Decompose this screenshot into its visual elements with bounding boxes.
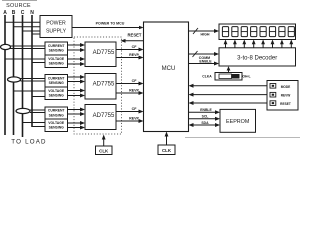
wire U2 CF to MCU	[116, 79, 144, 86]
pushbutton MODE	[270, 84, 290, 89]
svg-text:SOURCE: SOURCE	[6, 3, 31, 9]
svg-text:CF: CF	[132, 107, 138, 111]
pushbutton RESET	[270, 101, 291, 106]
svg-text:MODE: MODE	[281, 85, 291, 89]
current sensing 3 (phase C)	[45, 107, 68, 119]
svg-text:AD7755: AD7755	[93, 50, 115, 56]
wire U3 REVP to MCU	[116, 116, 144, 123]
oscillator CLK1 (ADC clock)	[96, 146, 113, 155]
svg-text:OH-L: OH-L	[242, 75, 250, 79]
svg-text:POWER: POWER	[46, 21, 66, 27]
op-amp U1 AD7755 #1	[85, 42, 116, 67]
wire voltage sensing 1 out a to U1	[68, 57, 86, 61]
voltage sensing 3 (phase C)	[45, 119, 68, 132]
wire voltage sensing 1 out b to U1	[68, 62, 86, 66]
svg-text:SENSING: SENSING	[49, 62, 65, 66]
wire neutral N vertical	[31, 15, 33, 127]
wire power supply to MCU	[72, 22, 144, 30]
svg-text:VOLTAGE: VOLTAGE	[48, 57, 65, 61]
svg-text:SUPPLY: SUPPLY	[46, 29, 67, 35]
display digit 7	[279, 27, 285, 37]
svg-text:REVW: REVW	[281, 94, 291, 98]
wire CT3 secondary a to current sensing 3	[30, 109, 45, 111]
svg-text:CF: CF	[132, 79, 138, 83]
svg-text:AD7755: AD7755	[93, 82, 115, 88]
svg-text:VOLTAGE: VOLTAGE	[48, 121, 65, 125]
wire CLK2 to MCU	[165, 132, 169, 146]
wire MCU COMM bus to decoder	[189, 51, 220, 60]
wire CT2 secondary a to current sensing 2	[21, 78, 46, 80]
wire phase B vertical	[13, 15, 15, 135]
wire current sensing 1 out b to U1	[68, 48, 86, 52]
EEPROM U6	[220, 109, 256, 132]
wire voltage sensing 2 out a to U2	[68, 89, 86, 93]
svg-text:SENSING: SENSING	[49, 113, 65, 117]
wire voltage sensing 2 out b to U2	[68, 94, 86, 98]
wire CLK1 to dashed enclosure	[102, 135, 106, 147]
wire CT1 secondary b to current sensing 1	[10, 48, 45, 50]
current transformer CT1 on phase A	[1, 44, 11, 49]
wire neutral tap to voltage sensing 3	[32, 126, 45, 128]
svg-text:RESET: RESET	[128, 32, 142, 37]
svg-text:AD7755: AD7755	[93, 113, 115, 119]
wire phase C tap to voltage sensing 3	[23, 122, 46, 124]
display digit 8	[288, 27, 294, 37]
svg-text:SENSING: SENSING	[49, 81, 65, 85]
wire phase A tap to voltage sensing 1	[5, 58, 45, 60]
decoder U5 3-to-8	[219, 48, 296, 66]
wire MCU RESET to ADCs	[121, 32, 144, 42]
current transformer CT3 on phase C	[16, 108, 30, 113]
svg-text:SDA: SDA	[201, 121, 209, 125]
wire phase B tap to voltage sensing 2	[14, 90, 46, 92]
display digit 1	[222, 27, 228, 37]
svg-text:POWER TO MCU: POWER TO MCU	[96, 22, 125, 26]
wire MCU ENABLE to decoder	[189, 59, 220, 65]
wire MCU segment bus to display	[189, 28, 220, 36]
wire MCU SCL to EEPROM	[189, 115, 221, 121]
wire MCU ENABLE to EEPROM	[189, 108, 221, 114]
wire decoder out 4 to display	[252, 40, 256, 48]
wire CT1 secondary a to current sensing 1	[10, 45, 45, 47]
wire REVW button to MCU	[189, 93, 268, 97]
wire neutral tap to voltage sensing 2	[32, 96, 45, 98]
wire U1 REVP to MCU	[116, 53, 144, 60]
op-amp U3 AD7755 #3	[85, 105, 116, 130]
svg-text:EEPROM: EEPROM	[226, 119, 250, 125]
display DS1 7-segment block	[219, 24, 296, 40]
svg-text:REVP: REVP	[129, 53, 139, 57]
wire U1 CF to MCU	[116, 45, 144, 52]
wire decoder out 7 to display	[280, 40, 284, 48]
current sensing 2 (phase B)	[45, 75, 68, 88]
wire phase A vertical	[4, 15, 6, 135]
wire A to power supply	[5, 21, 40, 23]
node SOURCE label	[6, 3, 31, 9]
voltage sensing 2 (phase B)	[45, 87, 68, 100]
svg-text:CLKA: CLKA	[202, 75, 212, 79]
svg-text:ENBLE: ENBLE	[200, 108, 212, 112]
svg-text:SENSING: SENSING	[49, 49, 65, 53]
svg-text:REVP: REVP	[129, 88, 139, 92]
wire current sensing 3 out a to U3	[68, 108, 86, 112]
display digit 6	[269, 27, 275, 37]
svg-text:CURRENT: CURRENT	[48, 44, 66, 48]
current sensing 1 (phase A)	[45, 42, 68, 55]
svg-text:CLK: CLK	[162, 148, 172, 153]
wire current sensing 3 out b to U3	[68, 112, 86, 116]
svg-text:CURRENT: CURRENT	[48, 76, 66, 80]
display digit 5	[260, 27, 266, 37]
svg-text:SENSING: SENSING	[49, 126, 65, 130]
wire decoder out 2 to display	[233, 40, 237, 48]
wire B to power supply	[14, 26, 41, 28]
display digit 3	[241, 27, 247, 37]
svg-text:CLK: CLK	[99, 149, 109, 154]
wire decoder out 6 to display	[271, 40, 275, 48]
wire phase C vertical	[22, 15, 24, 137]
faint rule bottom right	[185, 137, 300, 139]
wire MODE button to MCU	[189, 84, 268, 88]
svg-text:REVP: REVP	[129, 116, 139, 120]
svg-text:3-to-8 Decoder: 3-to-8 Decoder	[237, 56, 277, 62]
dashed enclosure around ADCs	[74, 37, 122, 134]
wire current sensing 2 out b to U2	[68, 80, 86, 84]
display digit 2	[232, 27, 238, 37]
svg-text:ENBLE: ENBLE	[199, 59, 212, 63]
svg-text:SENSING: SENSING	[49, 94, 65, 98]
wire voltage sensing 3 out b to U3	[68, 126, 86, 130]
wire CT3 secondary b to current sensing 3	[30, 112, 45, 114]
wire neutral tap to voltage sensing 1	[32, 62, 45, 64]
svg-text:HIGH: HIGH	[201, 32, 210, 36]
svg-text:RESET: RESET	[280, 102, 291, 106]
power supply U7	[40, 16, 72, 38]
wire U3 CF to MCU	[116, 107, 144, 114]
display digit 4	[251, 27, 257, 37]
voltage sensing 1 (phase A)	[45, 55, 68, 68]
MCU U4	[144, 22, 189, 132]
wire U2 REVP to MCU	[116, 88, 144, 95]
oscillator CLK2 (MCU clock)	[158, 145, 175, 155]
wire decoder out 5 to display	[261, 40, 265, 48]
pushbutton REVW	[270, 92, 290, 97]
brace over source wires	[2, 0, 37, 2]
wire switch to decoder	[227, 66, 231, 72]
svg-text:VOLTAGE: VOLTAGE	[48, 89, 65, 93]
current transformer CT2 on phase B	[8, 77, 21, 82]
keypad box	[267, 81, 298, 111]
svg-text:TO LOAD: TO LOAD	[11, 139, 46, 146]
op-amp U2 AD7755 #2	[85, 74, 116, 100]
wire current sensing 1 out a to U1	[68, 43, 86, 47]
wire C to power supply	[23, 30, 41, 32]
wire CT2 secondary b to current sensing 2	[21, 80, 46, 82]
svg-text:SCL: SCL	[202, 115, 209, 119]
wire MCU SDA to EEPROM bidirectional	[189, 121, 221, 127]
svg-text:CURRENT: CURRENT	[48, 109, 66, 113]
wire voltage sensing 3 out a to U3	[68, 121, 86, 125]
wire current sensing 2 out a to U2	[68, 75, 86, 79]
svg-text:MCU: MCU	[162, 66, 176, 72]
wire decoder out 8 to display	[289, 40, 293, 48]
wire RESET button to MCU	[189, 101, 268, 105]
svg-text:CF: CF	[132, 45, 138, 49]
wire decoder out 1 to display	[224, 40, 228, 48]
switch S4 display clock select	[202, 73, 250, 81]
wire decoder out 3 to display	[242, 40, 246, 48]
wire N to power supply	[32, 33, 40, 35]
